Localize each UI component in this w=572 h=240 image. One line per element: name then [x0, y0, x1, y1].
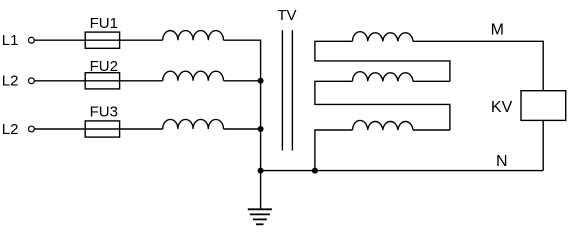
svg-text:L2: L2	[2, 121, 19, 138]
node L2b terminal	[28, 126, 34, 132]
ground	[260, 171, 262, 210]
svg-text:M: M	[491, 21, 504, 38]
wire FU1 to L1 coil	[120, 39, 163, 41]
voltmeter KV box	[521, 91, 566, 121]
node L1 terminal	[28, 37, 34, 43]
wire FU2 to L2 coil	[120, 80, 163, 82]
wire L2b to FU3	[35, 128, 86, 130]
wire FU3 to L2b coil	[120, 128, 163, 130]
junction bus-row2	[258, 78, 264, 84]
transformer TV core	[281, 30, 283, 150]
wire L2 to FU2	[35, 80, 86, 82]
junction bus-N	[258, 168, 264, 174]
svg-text:FU2: FU2	[90, 58, 118, 75]
svg-text:FU1: FU1	[90, 15, 118, 32]
junction secondary3-N	[312, 168, 318, 174]
inductor secondary winding 1	[353, 32, 414, 42]
svg-text:FU3: FU3	[90, 104, 118, 121]
inductor primary winding 1	[163, 31, 224, 41]
wire secondary3 left to N	[315, 130, 353, 171]
svg-text:N: N	[496, 153, 508, 170]
wire coil3 to bus	[224, 128, 261, 130]
junction bus-row3	[258, 126, 264, 132]
wire secondary3 right	[413, 129, 450, 131]
wire secondary1 left drop	[315, 41, 450, 81]
inductor primary winding 3	[163, 119, 224, 129]
wire L1 to FU1	[35, 39, 86, 41]
wire N line	[261, 170, 544, 172]
svg-text:KV: KV	[491, 99, 513, 116]
wire coil2 to bus	[224, 80, 261, 82]
inductor primary winding 2	[163, 71, 224, 81]
inductor secondary winding 3	[353, 120, 414, 130]
fuse FU2	[85, 73, 119, 89]
inductor secondary winding 2	[353, 72, 414, 82]
fuse FU1	[85, 32, 119, 48]
svg-text:TV: TV	[277, 7, 296, 24]
wire secondary2 left drop	[315, 81, 450, 130]
wire coil1 to bus	[224, 40, 261, 81]
wire KV to N	[542, 120, 544, 170]
svg-text:L1: L1	[2, 32, 19, 49]
node L2 terminal	[28, 78, 34, 84]
wire secondary2 right	[413, 80, 450, 82]
svg-text:L2: L2	[2, 73, 19, 90]
wire neutral bus	[260, 81, 262, 171]
fuse FU3	[85, 121, 119, 137]
wire secondary1 to M	[413, 41, 543, 90]
